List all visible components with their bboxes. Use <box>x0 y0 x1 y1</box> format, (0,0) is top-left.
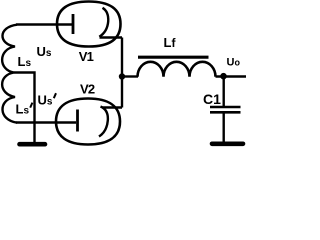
svg-text:Uo: Uo <box>227 57 241 69</box>
ground (right bar) <box>212 142 243 147</box>
winding <box>138 62 216 77</box>
svg-text:C1: C1 <box>203 91 221 107</box>
cathode lead <box>103 106 123 108</box>
vacuum tube diode V2 <box>56 99 122 145</box>
inductor Ls (upper secondary winding) <box>2 25 17 73</box>
node: output junction <box>220 73 227 80</box>
wire: Ls' bottom to V2 anode <box>16 121 76 123</box>
envelope <box>56 99 120 145</box>
anode plate bar <box>76 110 79 132</box>
bottom plate <box>210 111 241 114</box>
core bar <box>138 56 209 59</box>
cathode <box>99 8 108 37</box>
wire: Lf to output <box>216 75 247 77</box>
ground (left bar) <box>20 142 46 147</box>
svg-text:V1: V1 <box>79 49 94 64</box>
vacuum tube diode V1 <box>57 2 122 47</box>
wire: C1 to ground <box>222 112 224 142</box>
wire: V2 cathode up to junction <box>121 76 123 108</box>
junction (cathodes common node) <box>119 73 125 79</box>
cathode <box>99 107 108 137</box>
top plate <box>210 106 241 109</box>
wire: V1 cathode down to junction <box>121 38 123 78</box>
anode plate bar <box>72 14 75 34</box>
capacitor C1 <box>210 107 241 112</box>
svg-text:V2: V2 <box>80 82 95 97</box>
svg-text:Lf: Lf <box>164 35 177 50</box>
wire: top wire from Ls top to V1 anode <box>16 23 72 25</box>
wire: junction to Lf <box>122 75 138 77</box>
envelope <box>57 2 121 47</box>
cathode lead <box>100 36 123 38</box>
wire: center tap to ground <box>14 73 35 143</box>
wire: output node down to C1 <box>222 77 224 108</box>
inductor Lf (filter choke) <box>138 57 216 77</box>
inductor Ls' (lower secondary winding) <box>2 73 17 123</box>
